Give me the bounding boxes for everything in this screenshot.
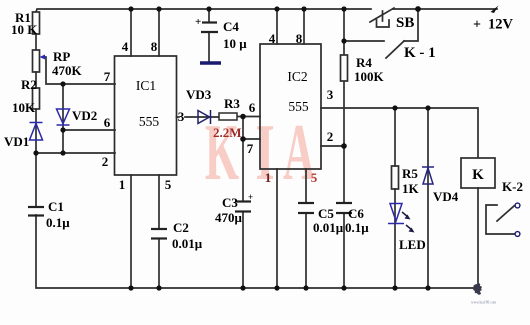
svg-text:3: 3: [178, 109, 185, 124]
svg-text:1: 1: [119, 177, 126, 192]
svg-text:6: 6: [104, 115, 111, 130]
svg-text:7: 7: [247, 141, 254, 156]
wire bottom ground rail: [36, 215, 478, 288]
svg-text:2.2M: 2.2M: [213, 125, 242, 140]
wire IC1 pin6 row: [63, 129, 115, 131]
svg-text:470K: 470K: [52, 63, 83, 78]
svg-text:555: 555: [139, 114, 160, 129]
svg-text:C2: C2: [173, 220, 189, 235]
wire RP wiper to IC1 pin7: [46, 57, 115, 84]
svg-text:0.01μ: 0.01μ: [172, 236, 203, 251]
capacitor C3: [235, 202, 251, 212]
wire RP to R2: [35, 72, 37, 88]
svg-text:C5: C5: [318, 206, 334, 221]
wire R5 to LED: [394, 189, 396, 288]
relay coil K box: [461, 158, 495, 188]
node rail-IC2 pin4: [274, 6, 279, 11]
node rail-SB/K1: [415, 6, 421, 12]
wire C5 to ground rail: [305, 213, 307, 288]
svg-text:12V: 12V: [488, 17, 514, 33]
svg-text:8: 8: [151, 39, 158, 54]
IC2 pin2 wire: [321, 145, 344, 147]
svg-text:6: 6: [249, 100, 256, 115]
capacitor C6: [336, 203, 352, 213]
node RP wiper/VD2: [60, 81, 65, 86]
diode VD4: [422, 167, 434, 184]
node +12V terminal: [491, 6, 499, 14]
svg-text:IC1: IC1: [136, 78, 156, 93]
diode VD3: [198, 110, 211, 124]
svg-text:1: 1: [265, 170, 272, 185]
IC2 pin8 wire: [303, 9, 305, 44]
svg-text:2: 2: [102, 154, 109, 169]
IC2 pin4 wire: [276, 9, 278, 44]
node rail-IC1 pin8: [156, 6, 161, 11]
capacitor C4 branch wire: [208, 9, 210, 22]
svg-text:K - 1: K - 1: [404, 45, 436, 61]
IC1 pin1 wire: [130, 175, 132, 288]
potentiometer RP wiper arrow: [40, 55, 47, 60]
node rail-C4: [206, 6, 211, 11]
resistor R1: [33, 12, 40, 34]
svg-text:SB: SB: [396, 15, 414, 31]
svg-text:www.kia188.com: www.kia188.com: [471, 301, 497, 305]
relay contact K-2: [486, 205, 515, 234]
svg-text:0.1μ: 0.1μ: [345, 220, 369, 235]
wire R1 to RP: [35, 34, 37, 50]
node pin3-VD4: [425, 105, 430, 110]
svg-text:7: 7: [104, 69, 111, 84]
svg-text:4: 4: [269, 31, 276, 46]
ground node LED: [392, 285, 397, 290]
watermark (decorative): [205, 107, 315, 197]
ground node C6: [341, 285, 346, 290]
wire R2 to VD1: [35, 109, 37, 153]
svg-text:K: K: [472, 167, 484, 183]
wire R3 to IC2 pin6: [237, 116, 260, 118]
node rail-R4: [341, 6, 346, 11]
svg-text:C3: C3: [222, 195, 238, 210]
capacitor C4 (electrolytic): [201, 23, 218, 33]
svg-text:R4: R4: [356, 55, 372, 70]
svg-text:IC2: IC2: [287, 69, 307, 84]
svg-text:VD4: VD4: [433, 189, 459, 204]
svg-text:RP: RP: [53, 49, 70, 64]
potentiometer RP body: [33, 50, 40, 72]
node rail-IC1 pin4: [128, 6, 133, 11]
svg-text:555: 555: [288, 99, 309, 114]
IC1 pin8 wire: [158, 9, 160, 56]
diode VD4 branch wire: [427, 108, 429, 288]
svg-text:10 K: 10 K: [11, 22, 38, 37]
ground node VD4: [425, 285, 430, 290]
switch SB blade: [370, 8, 394, 22]
svg-text:1K: 1K: [402, 181, 420, 196]
svg-text:5: 5: [165, 177, 172, 192]
wire C3 to ground rail: [242, 212, 244, 288]
svg-text:VD1: VD1: [4, 134, 29, 149]
svg-text:+: +: [473, 18, 481, 33]
wire node to C1: [35, 153, 37, 207]
node VD2-pin6: [60, 127, 65, 132]
svg-text:+: +: [195, 16, 201, 28]
wire node to C3: [242, 117, 244, 202]
svg-text:VD3: VD3: [186, 87, 212, 102]
svg-text:10 μ: 10 μ: [223, 36, 247, 51]
svg-text:LED: LED: [399, 237, 426, 252]
svg-text:C4: C4: [223, 19, 239, 34]
node pin2-R4: [341, 143, 347, 149]
svg-text:VD2: VD2: [72, 108, 97, 123]
svg-text:5: 5: [311, 170, 318, 185]
wire C2 to ground rail: [158, 239, 160, 288]
capacitor C2: [151, 229, 167, 239]
wire IC2 pin7 row: [243, 138, 260, 140]
node VD2-pin2: [60, 150, 65, 155]
wire C6 to ground rail: [343, 213, 345, 288]
wire K coil to ground rail: [477, 188, 479, 288]
svg-text:10K: 10K: [12, 100, 36, 115]
resistor R4: [341, 55, 348, 81]
node rail-IC2 pin8: [301, 6, 306, 11]
IC1 pin3 wire: [185, 116, 219, 118]
svg-text:K-2: K-2: [502, 179, 523, 194]
ground node IC1 pin1: [128, 285, 133, 290]
svg-text:8: 8: [296, 31, 303, 46]
svg-text:C1: C1: [48, 199, 64, 214]
capacitor C1: [28, 207, 44, 216]
ground node C2: [156, 285, 161, 290]
svg-text:2: 2: [327, 129, 334, 144]
wire +12V top rail left segment: [36, 9, 371, 12]
IC1 pin5 wire to C2: [158, 175, 160, 229]
watermark blob bottom right (decorative): [473, 283, 482, 294]
node K1-R4 tap: [341, 38, 346, 43]
node R3 out pin6: [240, 114, 246, 120]
R4 branch wire: [343, 9, 345, 55]
IC2 timer box: [260, 44, 321, 169]
K-2 terminal circles: [515, 203, 520, 208]
IC1 pin4 wire: [130, 9, 132, 56]
diode VD2: [57, 109, 70, 125]
wire IC1 pin2 row: [36, 152, 115, 154]
node pin7 tap: [240, 136, 246, 142]
ground node C5: [303, 285, 308, 290]
wire +12V top rail right segment: [393, 8, 497, 10]
svg-text:470μ: 470μ: [215, 210, 243, 225]
LED: [388, 204, 415, 233]
svg-text:R3: R3: [224, 96, 240, 111]
wire pin2 node to C6: [343, 146, 345, 203]
ground node C3: [240, 285, 245, 290]
svg-text:0.01μ: 0.01μ: [313, 220, 344, 235]
node VD1-pin2: [33, 150, 38, 155]
IC1 timer box: [115, 56, 177, 175]
svg-text:4: 4: [122, 39, 129, 54]
wire pin3 net to R5: [394, 108, 396, 166]
svg-text:R2: R2: [21, 77, 37, 92]
switch SB actuator: [382, 11, 384, 21]
ground symbol (C4): [200, 61, 221, 65]
svg-text:0.1μ: 0.1μ: [46, 215, 70, 230]
IC2 pin3 net wire: [321, 108, 478, 158]
diode VD1: [30, 123, 43, 141]
resistor R5: [392, 166, 399, 189]
IC2 pin1 wire: [276, 169, 278, 288]
IC2 pin5 wire to C5: [305, 169, 307, 203]
ground node IC2 pin1: [274, 285, 279, 290]
resistor R3: [219, 113, 237, 120]
svg-text:C6: C6: [348, 206, 364, 221]
wire VD2 branch: [62, 84, 64, 153]
svg-text:3: 3: [327, 87, 334, 102]
node pin3-R5: [392, 105, 397, 110]
svg-text:R5: R5: [402, 166, 418, 181]
relay contact K-1: [344, 40, 384, 42]
svg-text:100K: 100K: [354, 69, 385, 84]
resistor R2: [33, 88, 40, 109]
svg-text:+: +: [248, 192, 253, 202]
capacitor C5: [298, 203, 314, 213]
